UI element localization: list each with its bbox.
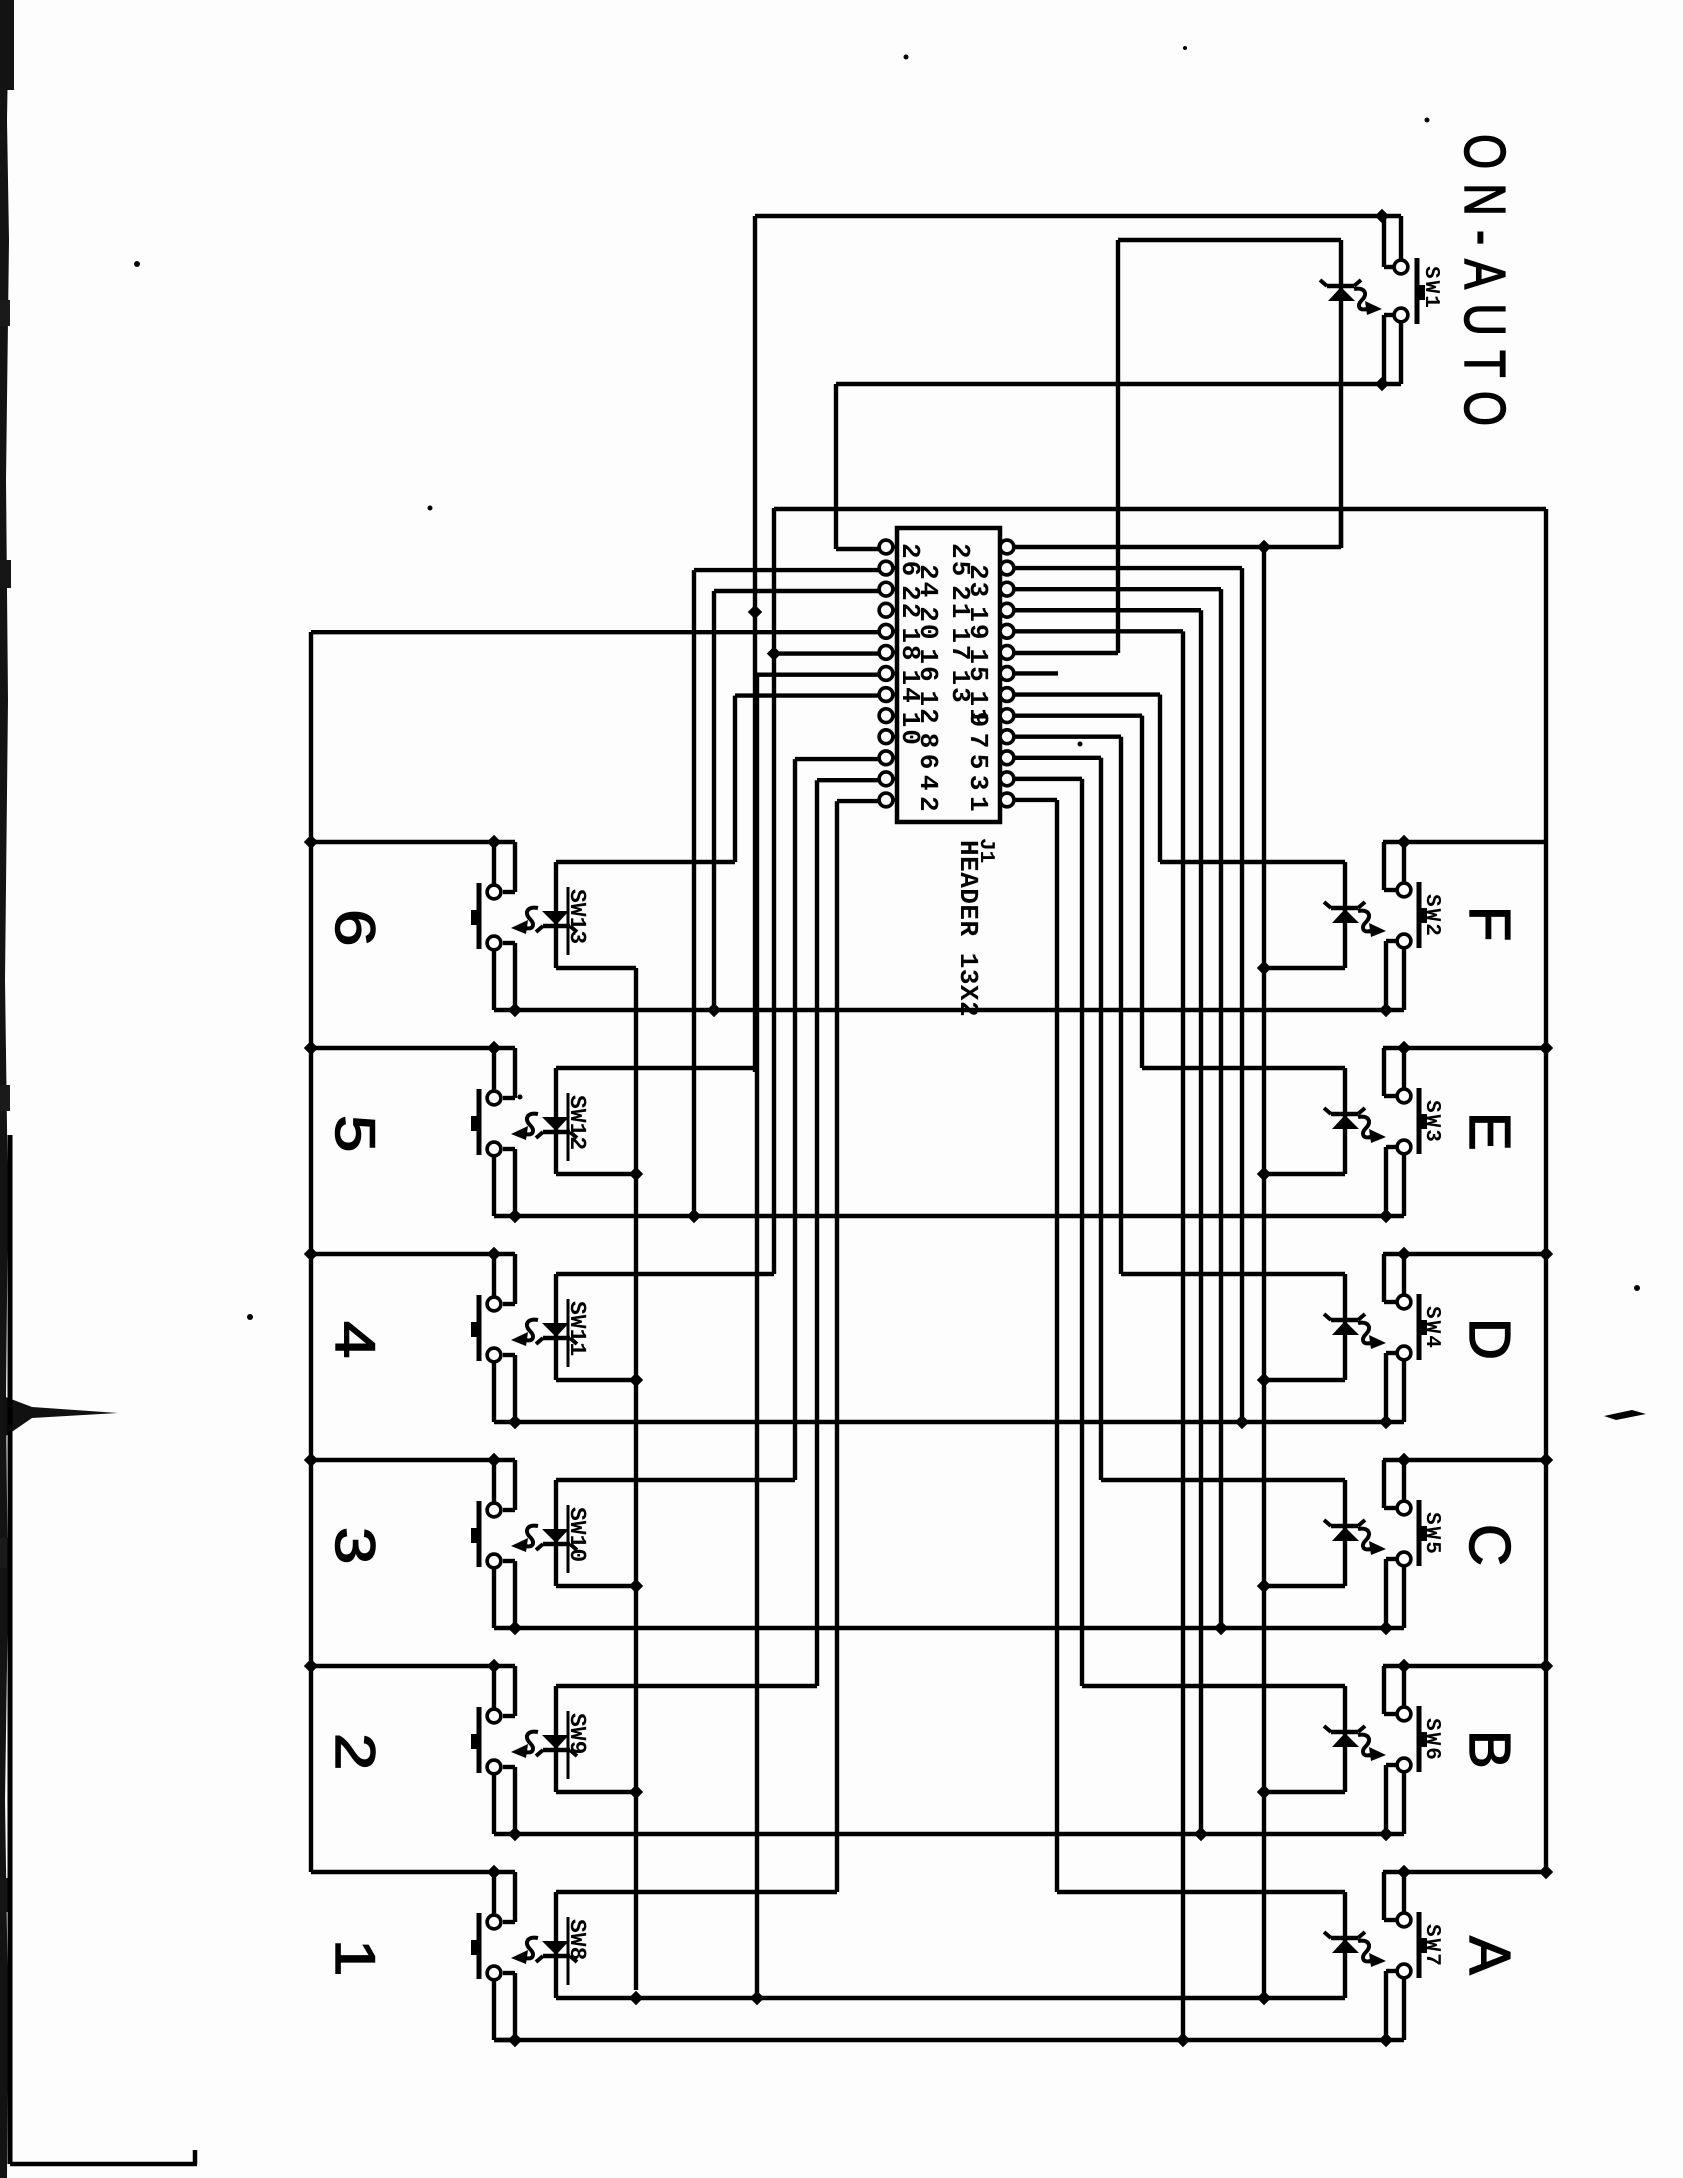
junction <box>1539 1041 1553 1055</box>
switch SW10 label <box>564 1505 590 1573</box>
wire <box>735 693 879 697</box>
wire <box>1014 629 1183 633</box>
wire <box>1384 1048 1396 1096</box>
wire <box>503 842 515 892</box>
LED D8 cathode wire <box>556 860 735 864</box>
wire <box>1240 568 1244 1422</box>
wire <box>795 757 879 761</box>
pin 26 number label <box>895 543 925 578</box>
junction <box>304 1247 318 1261</box>
pin 21 number label <box>945 585 975 620</box>
switch SW11 terminal stub <box>492 1254 496 1297</box>
switch SW6 terminal stub <box>1402 1666 1406 1707</box>
wire <box>1158 695 1162 862</box>
cell A top rail wire <box>1383 1870 1546 1874</box>
pin 3 of J1 <box>1000 772 1014 786</box>
connector J1 body <box>897 528 1000 822</box>
LED D2 light arrow <box>1358 911 1386 937</box>
cell F top rail wire <box>1383 840 1546 844</box>
switch SW10 terminal stub <box>492 1460 496 1503</box>
cell B label <box>1457 1730 1522 1769</box>
junction <box>1397 1453 1411 1467</box>
LED D12 anode wire <box>556 1790 636 1794</box>
pin 12 number label <box>913 691 943 726</box>
cell 4 label <box>324 1321 387 1358</box>
LED D10 <box>536 1274 577 1380</box>
junction <box>1375 377 1389 391</box>
junction <box>1214 1621 1228 1635</box>
switch SW10 terminal stub <box>494 1568 515 1628</box>
wire <box>772 508 776 1274</box>
junction <box>1397 1041 1411 1055</box>
LED D6 <box>1324 1686 1365 1792</box>
svg-text:2: 2 <box>913 796 943 814</box>
cell 4 top rail wire <box>311 1252 515 1256</box>
speck <box>1604 1410 1646 1420</box>
pin 11 of J1 <box>1000 688 1014 702</box>
speck <box>904 55 909 60</box>
wire <box>714 589 879 593</box>
LED D12 light arrow <box>511 1732 538 1758</box>
junction <box>487 1659 501 1673</box>
LED D3 <box>1324 1068 1365 1174</box>
wire <box>503 1561 515 1628</box>
junction <box>1257 1991 1271 2005</box>
wire <box>1386 1353 1396 1422</box>
junction <box>508 1209 522 1223</box>
LED D2 anode wire <box>1264 966 1345 970</box>
wire <box>1181 631 1185 2039</box>
junction <box>1379 1209 1393 1223</box>
speck <box>428 506 433 511</box>
wire <box>503 1767 515 1834</box>
junction <box>1397 1865 1411 1879</box>
switch SW8 terminal stub <box>494 1980 515 2040</box>
junction <box>1235 1415 1249 1429</box>
wire <box>1384 216 1394 267</box>
pin 20 of J1 <box>879 603 897 617</box>
cell 6 top rail wire <box>311 840 515 844</box>
switch SW9 <box>471 1707 501 1774</box>
wire <box>503 1666 515 1716</box>
wire <box>1384 1254 1396 1302</box>
wire row <box>515 1420 1404 1424</box>
wire <box>1014 735 1121 739</box>
LED D7 <box>1324 1892 1365 1998</box>
junction <box>629 1373 643 1387</box>
switch SW2 label <box>1420 894 1443 938</box>
LED D4 anode wire <box>1264 1378 1345 1382</box>
pin 6 number label <box>913 754 943 772</box>
switch SW6 terminal stub <box>1402 1772 1406 1834</box>
pin 3 number label <box>963 775 993 793</box>
LED D6 light arrow <box>1358 1735 1386 1761</box>
switch SW6 label <box>1420 1718 1443 1762</box>
junction <box>1397 1659 1411 1673</box>
switch SW4 <box>1397 1294 1427 1360</box>
LED D7 light arrow <box>1358 1941 1386 1967</box>
junction <box>748 605 762 619</box>
switch SW13 terminal stub <box>492 842 496 885</box>
svg-text:7: 7 <box>963 733 993 751</box>
LED D13 <box>536 1892 577 1998</box>
svg-text:8: 8 <box>913 733 943 751</box>
wire <box>1014 692 1160 696</box>
LED D6 anode wire <box>1264 1790 1345 1794</box>
switch SW13 label <box>564 887 590 955</box>
cell F label <box>1457 906 1522 941</box>
scanner edge blob <box>0 1878 10 1912</box>
LED D11 cathode wire <box>556 1478 795 1482</box>
wire <box>1014 545 1341 549</box>
switch SW9 label <box>564 1711 590 1779</box>
wire <box>1014 777 1082 781</box>
wire row <box>494 2038 1404 2042</box>
pin 23 number label <box>963 564 993 599</box>
LED D8 light arrow <box>511 908 538 934</box>
pin 4 of J1 <box>879 772 897 786</box>
LED D9 <box>536 1068 577 1174</box>
pin 19 of J1 <box>1000 603 1014 617</box>
switch SW3 label <box>1420 1100 1443 1144</box>
wire <box>774 507 1546 511</box>
LED D10 light arrow <box>511 1320 538 1346</box>
junction <box>1257 1579 1271 1593</box>
junction <box>1539 1659 1553 1673</box>
wire <box>1099 758 1103 1480</box>
wire <box>503 1254 515 1304</box>
wire <box>1014 798 1057 802</box>
pin 4 number label <box>913 775 943 793</box>
svg-text:3: 3 <box>963 775 993 793</box>
cell D top rail wire <box>1383 1252 1546 1256</box>
pin 17 of J1 <box>1000 624 1014 638</box>
switch SW7 terminal stub <box>1402 1872 1406 1913</box>
svg-text:6: 6 <box>324 909 387 946</box>
wire <box>1199 610 1203 1834</box>
wire <box>1014 608 1201 612</box>
pin 10 of J1 <box>879 709 897 723</box>
wire <box>503 1149 515 1216</box>
pin 2 of J1 <box>879 793 897 807</box>
junction <box>508 2033 522 2047</box>
svg-text:2: 2 <box>324 1733 387 1770</box>
LED D3 anode wire <box>1264 1172 1345 1176</box>
wire <box>774 651 879 655</box>
switch SW9 terminal stub <box>494 1774 515 1834</box>
switch SW7 label <box>1420 1924 1443 1968</box>
switch SW8 label <box>564 1917 590 1985</box>
wire <box>1384 1460 1396 1508</box>
wire <box>503 1872 515 1922</box>
LED D5 cathode wire <box>1101 1478 1345 1482</box>
wire <box>503 943 515 1010</box>
wire number common column <box>309 632 313 1872</box>
LED D1 anode wire <box>1118 238 1341 242</box>
wire <box>836 547 879 551</box>
sheet border corner <box>10 1135 197 2164</box>
junction <box>1379 2033 1393 2047</box>
junction <box>1257 1785 1271 1799</box>
svg-text:SW2: SW2 <box>1420 894 1443 938</box>
pin 17 number label <box>945 627 975 662</box>
pin 12 of J1 <box>879 688 897 702</box>
cell 2 label <box>324 1733 387 1770</box>
pin 11 number label <box>963 691 993 726</box>
junction <box>1176 2033 1190 2047</box>
wire <box>755 675 759 1997</box>
junction <box>1379 1415 1393 1429</box>
junction <box>508 1621 522 1635</box>
wire <box>1384 1666 1396 1714</box>
wire <box>1386 941 1396 1010</box>
wire <box>815 780 819 1686</box>
switch SW9 terminal stub <box>492 1666 496 1709</box>
wire <box>1014 651 1118 655</box>
wire <box>793 759 797 1480</box>
junction <box>1539 1453 1553 1467</box>
switch SW8 terminal stub <box>492 1872 496 1915</box>
junction <box>1397 1247 1411 1261</box>
wire <box>1339 240 1343 548</box>
wire <box>1386 1765 1396 1834</box>
pin 19 number label <box>963 606 993 641</box>
switch SW12 label <box>564 1093 590 1161</box>
no-connect stub pin 13 <box>1014 671 1058 675</box>
switch SW1 <box>1394 258 1425 324</box>
switch SW10 <box>471 1501 501 1568</box>
wire row <box>515 1008 1404 1012</box>
junction <box>487 1453 501 1467</box>
wire <box>1014 566 1242 570</box>
wire <box>503 1355 515 1422</box>
wire <box>1014 587 1221 591</box>
LED D7 cathode wire <box>1057 1890 1345 1894</box>
wire <box>503 1460 515 1510</box>
svg-text:4: 4 <box>913 775 943 793</box>
pin 1 of J1 <box>1000 793 1014 807</box>
LED D4 cathode wire <box>1121 1272 1345 1276</box>
junction <box>1257 1373 1271 1387</box>
cell 1 top rail wire <box>311 1870 515 1874</box>
wire <box>311 630 879 634</box>
pin 9 number label <box>963 712 993 730</box>
LED D11 anode wire <box>556 1584 636 1588</box>
scanner edge spike <box>3 1396 118 1438</box>
wire <box>1055 800 1059 1892</box>
junction <box>707 1003 721 1017</box>
cell 2 top rail wire <box>311 1664 515 1668</box>
switch SW2 terminal stub <box>1402 842 1406 883</box>
pin 5 of J1 <box>1000 751 1014 765</box>
switch SW5 label <box>1420 1512 1443 1556</box>
switch SW2 <box>1397 882 1427 948</box>
LED D4 light arrow <box>1358 1323 1386 1349</box>
LED D6 cathode wire <box>1082 1684 1345 1688</box>
switch SW4 terminal stub <box>1402 1360 1406 1422</box>
svg-text:6: 6 <box>913 754 943 772</box>
cell E top rail wire <box>1383 1046 1546 1050</box>
wire <box>1014 713 1142 717</box>
junction <box>508 1827 522 1841</box>
LED D10 anode wire <box>556 1378 636 1382</box>
svg-text:9: 9 <box>963 712 993 730</box>
LED D11 <box>536 1480 577 1586</box>
junction <box>1257 540 1271 554</box>
wire <box>1384 842 1396 890</box>
pin 21 of J1 <box>1000 582 1014 596</box>
switch SW1 label <box>1419 266 1442 310</box>
pin 8 number label <box>913 733 943 751</box>
scanner edge blob <box>0 1538 9 1568</box>
cell E label <box>1457 1112 1522 1151</box>
LED D4 <box>1324 1274 1365 1380</box>
cell 5 label <box>324 1115 387 1152</box>
svg-text:5: 5 <box>324 1115 387 1152</box>
pin 23 of J1 <box>1000 561 1014 575</box>
junction <box>629 1167 643 1181</box>
wire <box>834 384 838 549</box>
LED D13 anode wire <box>556 1996 1345 2000</box>
pin 15 number label <box>963 648 993 683</box>
pin 13 of J1 <box>1000 667 1014 681</box>
pin 13 number label <box>945 669 975 704</box>
svg-text:SW10: SW10 <box>564 1507 590 1562</box>
LED D12 cathode wire <box>556 1684 817 1688</box>
wire <box>817 778 879 782</box>
junction <box>487 835 501 849</box>
switch SW8 <box>471 1913 501 1980</box>
wire <box>1080 779 1084 1686</box>
junction <box>304 1041 318 1055</box>
wire <box>692 570 696 1216</box>
svg-text:SW1: SW1 <box>1419 266 1442 310</box>
switch SW11 terminal stub <box>494 1362 515 1422</box>
svg-text:SW13: SW13 <box>564 889 590 944</box>
pin 26 of J1 <box>879 540 897 554</box>
pin 7 of J1 <box>1000 730 1014 744</box>
switch SW5 terminal stub <box>1402 1566 1406 1628</box>
pin 22 number label <box>895 585 925 620</box>
LED D2 <box>1324 862 1365 968</box>
speck <box>1634 1285 1640 1291</box>
junction <box>1539 1865 1553 1879</box>
scanner edge artifact <box>0 0 9 2178</box>
junction <box>487 1865 501 1879</box>
LED D5 anode wire <box>1264 1584 1345 1588</box>
junction <box>508 1415 522 1429</box>
junction <box>629 1579 643 1593</box>
pin 8 of J1 <box>879 730 897 744</box>
junction <box>750 1991 764 2005</box>
LED D1 <box>1320 280 1361 301</box>
switch SW12 terminal stub <box>492 1048 496 1091</box>
junction <box>508 1003 522 1017</box>
wire <box>733 696 737 862</box>
wire <box>503 1973 515 2040</box>
wire <box>755 214 1401 218</box>
svg-text:D: D <box>1457 1318 1522 1360</box>
junction <box>487 1041 501 1055</box>
net label ON-AUTO <box>1452 134 1517 440</box>
wire <box>757 673 879 677</box>
wire bus <box>1262 547 1266 1996</box>
svg-text:SW6: SW6 <box>1420 1718 1443 1762</box>
junction <box>1397 835 1411 849</box>
wire <box>634 968 638 1990</box>
pin 25 number label <box>945 543 975 578</box>
junction <box>767 646 781 660</box>
cell D label <box>1457 1318 1522 1360</box>
wire row <box>515 1626 1404 1630</box>
junction <box>1379 1827 1393 1841</box>
pin 9 of J1 <box>1000 709 1014 723</box>
wire <box>694 568 879 572</box>
switch SW13 terminal stub <box>494 950 515 1010</box>
junction <box>1539 1247 1553 1261</box>
wire <box>1339 509 1343 548</box>
LED D9 anode wire <box>556 1172 636 1176</box>
cell 5 top rail wire <box>311 1046 515 1050</box>
wire <box>1386 1147 1396 1216</box>
wire row <box>515 1832 1404 1836</box>
switch SW12 terminal stub <box>494 1156 515 1216</box>
svg-text:SW4: SW4 <box>1420 1306 1443 1350</box>
cell C label <box>1457 1524 1522 1566</box>
wire <box>835 801 839 1892</box>
speck <box>1425 118 1430 123</box>
switch SW5 <box>1397 1500 1427 1566</box>
wire <box>1219 589 1223 1628</box>
switch SW11 label <box>564 1299 590 1367</box>
svg-text:5: 5 <box>963 754 993 772</box>
svg-text:SW5: SW5 <box>1420 1512 1443 1556</box>
switch SW3 terminal stub <box>1402 1048 1406 1089</box>
LED D1 light arrow <box>1354 289 1382 315</box>
switch SW6 <box>1397 1706 1427 1772</box>
pin 20 number label <box>913 606 943 641</box>
connector J1 value label HEADER 13X2 <box>953 840 983 1017</box>
pin 24 number label <box>913 564 943 599</box>
LED D5 light arrow <box>1358 1529 1386 1555</box>
svg-text:C: C <box>1457 1524 1522 1566</box>
wire <box>1386 1559 1396 1628</box>
pin 18 of J1 <box>879 624 897 638</box>
LED D12 <box>536 1686 577 1792</box>
speck <box>247 1314 253 1320</box>
connector J1 refdes label <box>974 838 997 863</box>
junction <box>1379 1003 1393 1017</box>
switch SW13 <box>471 883 501 950</box>
wire <box>1119 737 1123 1274</box>
switch SW7 <box>1397 1912 1427 1978</box>
LED D8 anode wire <box>556 966 636 970</box>
cell 6 label <box>324 909 387 946</box>
LED D13 light arrow <box>511 1938 538 1964</box>
pin 22 of J1 <box>879 582 897 596</box>
junction <box>487 1247 501 1261</box>
wire <box>1014 756 1101 760</box>
cell 3 top rail wire <box>311 1458 515 1462</box>
speck <box>134 261 140 267</box>
switch SW4 terminal stub <box>1402 1254 1406 1295</box>
pin 5 number label <box>963 754 993 772</box>
LED D10 cathode wire <box>556 1272 774 1276</box>
LED D3 light arrow <box>1358 1117 1386 1143</box>
switch SW1 terminal stub <box>1399 216 1403 260</box>
pin 10 number label <box>895 712 925 747</box>
pin 15 of J1 <box>1000 646 1014 660</box>
